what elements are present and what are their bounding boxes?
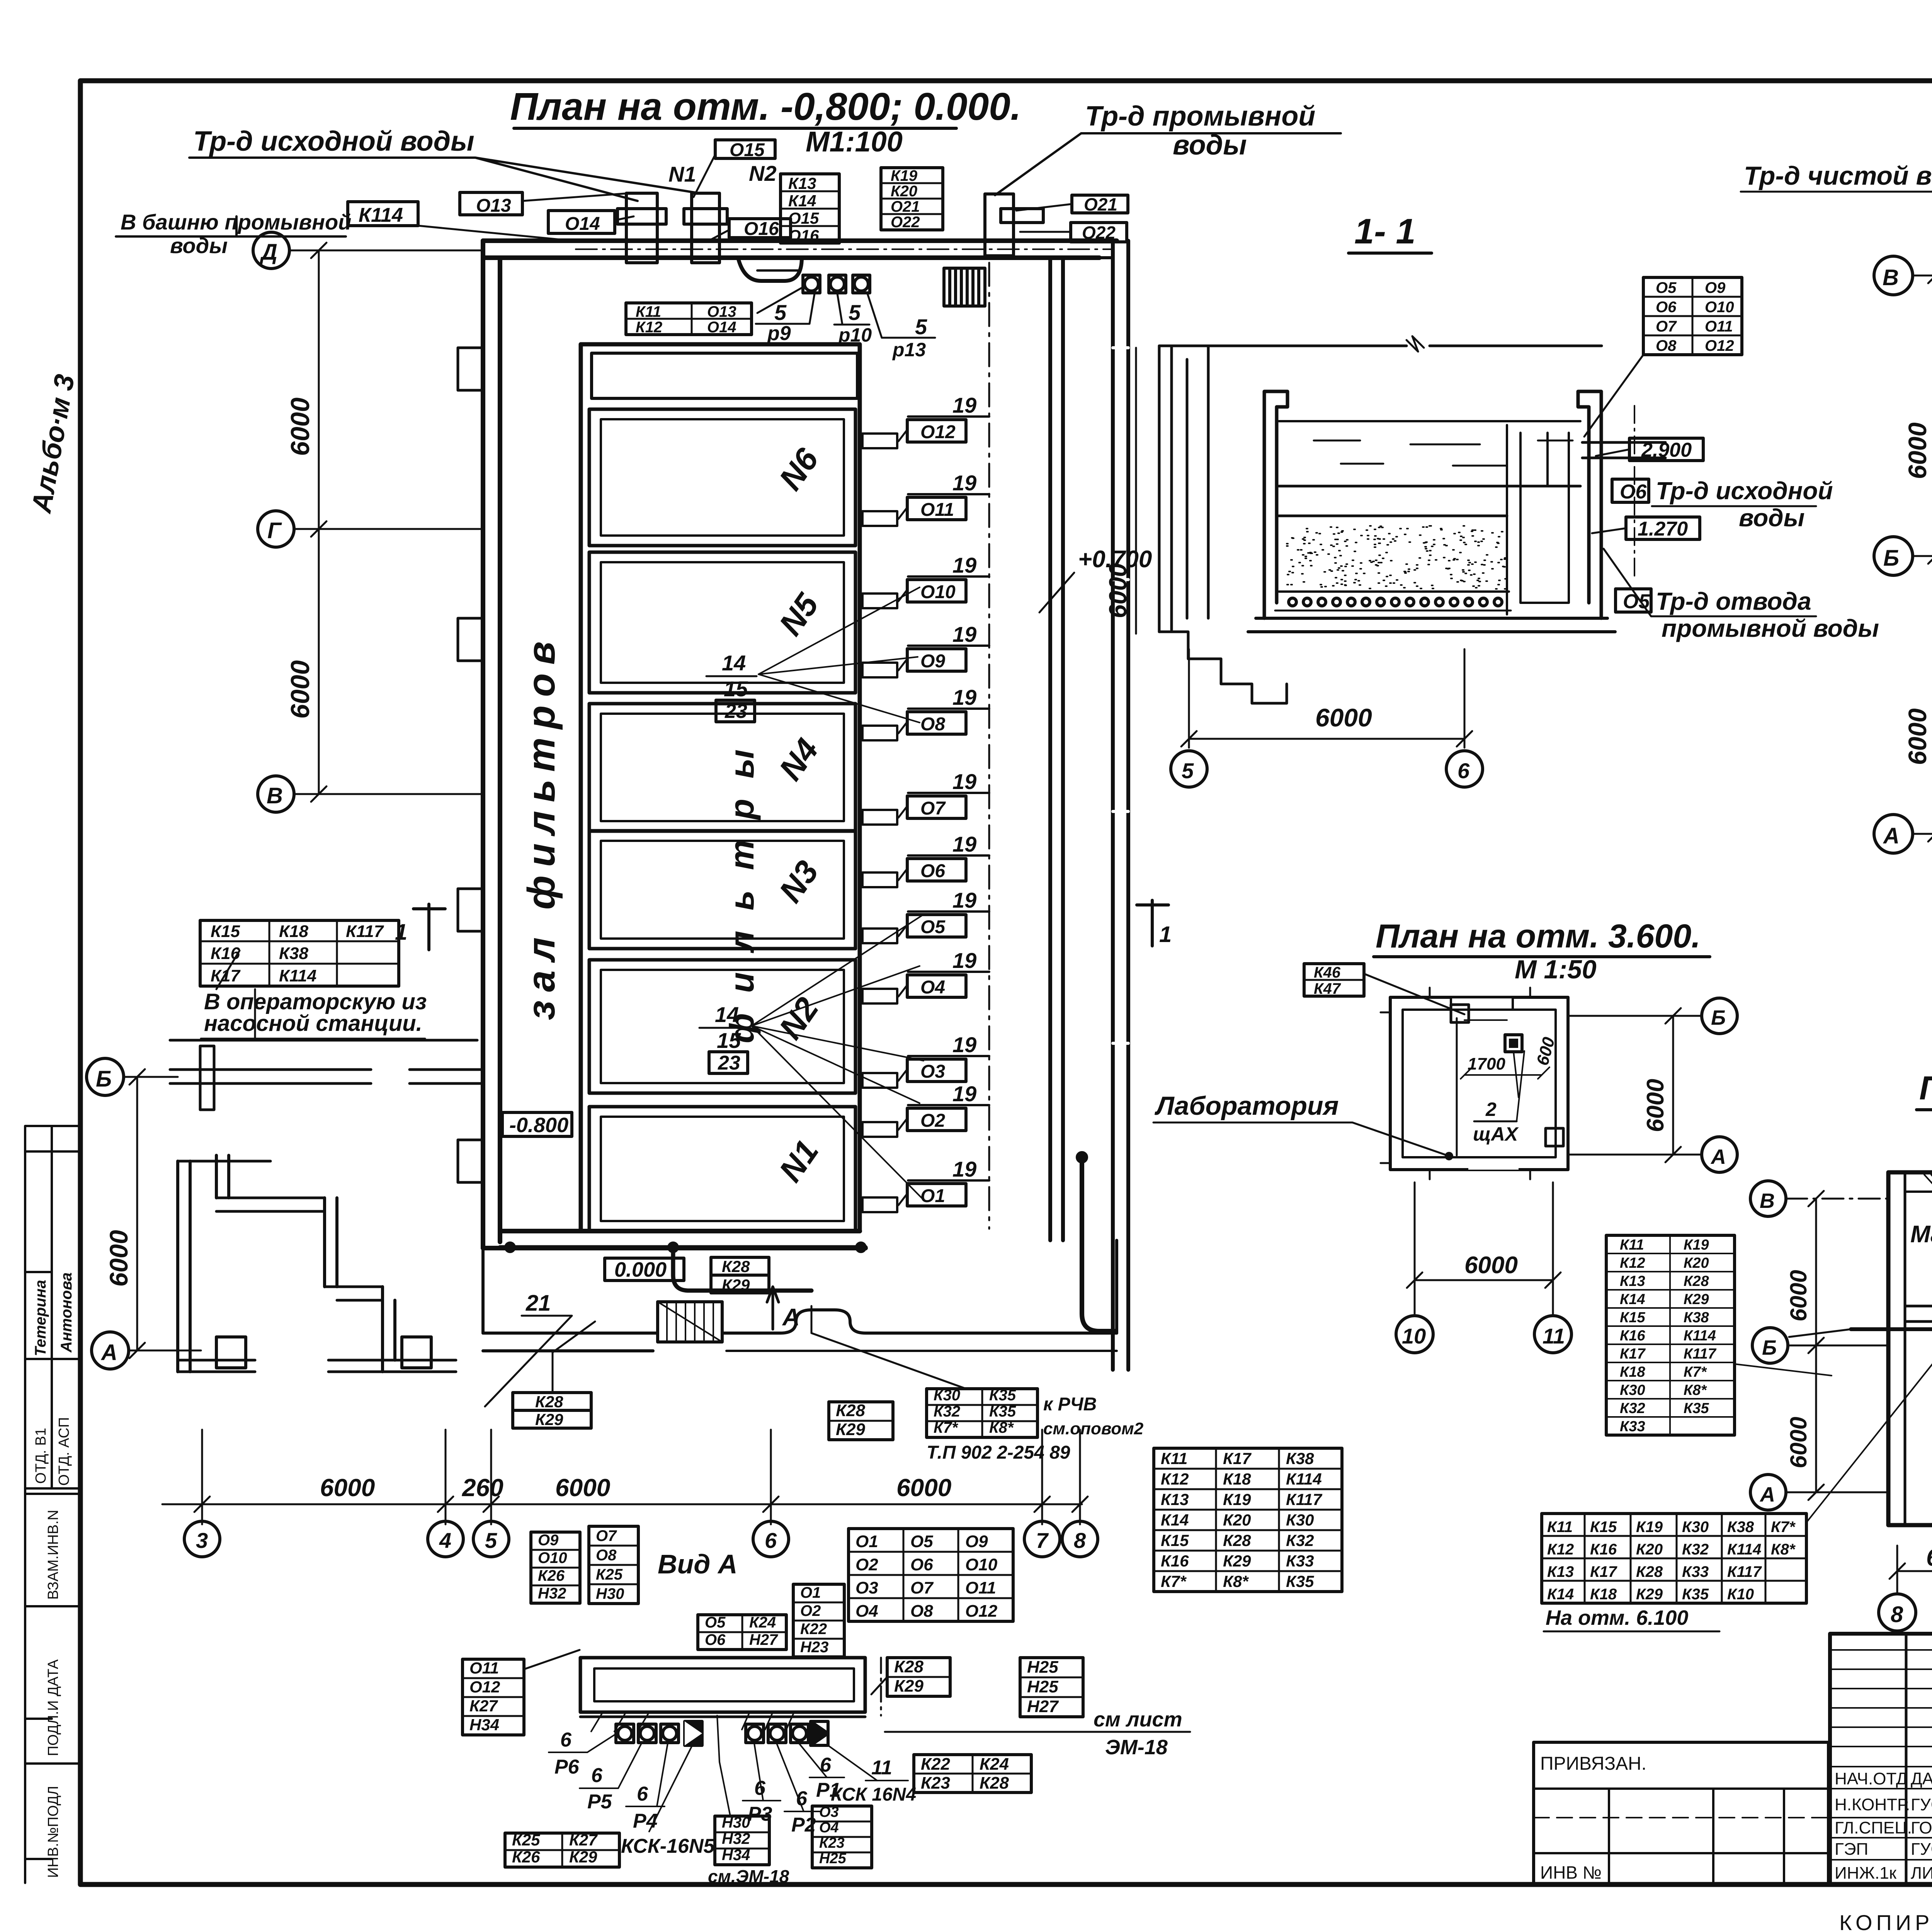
svg-text:К22: К22 — [921, 1755, 951, 1774]
plan 0.000 axis circle B — [1752, 1328, 1889, 1363]
svg-text:Н34: Н34 — [469, 1716, 499, 1734]
svg-text:К114: К114 — [1727, 1541, 1761, 1558]
svg-text:А: А — [1759, 1483, 1775, 1506]
svg-text:О6: О6 — [705, 1631, 726, 1648]
table K25 K27 / K26 K29 — [505, 1831, 619, 1867]
svg-text:К117: К117 — [1684, 1346, 1717, 1362]
gallery walls (right strip of filter hall) — [1050, 241, 1128, 1370]
svg-text:К15: К15 — [1590, 1519, 1617, 1536]
callout O11 with pipe stub — [862, 471, 989, 526]
svg-text:К13: К13 — [1547, 1563, 1574, 1580]
lab bottom dim and circles 10 11 — [1407, 1182, 1561, 1314]
svg-text:О5: О5 — [910, 1532, 933, 1551]
svg-text:ОТД. АСП: ОТД. АСП — [56, 1417, 72, 1486]
valve squares row top — [803, 275, 870, 293]
svg-text:6000: 6000 — [104, 1230, 133, 1287]
svg-text:1- 1: 1- 1 — [1354, 212, 1416, 251]
svg-text:К30: К30 — [934, 1387, 960, 1404]
svg-text:КОПИРОВАЛ ЛОГИНОВА: КОПИРОВАЛ ЛОГИНОВА — [1839, 1910, 1932, 1932]
dash-dot line along top wall — [576, 248, 1113, 250]
svg-text:260: 260 — [462, 1474, 503, 1502]
svg-text:К24: К24 — [980, 1755, 1009, 1774]
svg-text:19: 19 — [952, 685, 976, 709]
svg-text:6000: 6000 — [1642, 1079, 1669, 1132]
svg-text:К30: К30 — [1620, 1382, 1645, 1398]
svg-text:19: 19 — [952, 888, 976, 912]
svg-text:5: 5 — [915, 315, 927, 339]
view arrow A — [767, 1287, 800, 1331]
svg-text:К26: К26 — [538, 1567, 565, 1584]
svg-text:О5: О5 — [705, 1614, 726, 1631]
trough (view A) — [580, 1658, 881, 1731]
corridor stairs top — [944, 268, 985, 306]
table K15..K117 (operator) — [200, 920, 399, 986]
svg-text:1: 1 — [1159, 922, 1172, 947]
svg-text:Д: Д — [259, 240, 277, 265]
svg-text:воды: воды — [1739, 504, 1804, 532]
label 2.900 — [1596, 438, 1703, 461]
svg-text:11: 11 — [871, 1757, 892, 1779]
svg-text:6000: 6000 — [1786, 1417, 1811, 1468]
plan 0.000 axis circle V — [1750, 1181, 1889, 1216]
svg-text:Н32: Н32 — [538, 1585, 566, 1602]
svg-text:К17: К17 — [1223, 1449, 1252, 1468]
svg-text:Лаборатория: Лаборатория — [1154, 1091, 1339, 1121]
svg-text:Мастерская: Мастерская — [1910, 1221, 1932, 1248]
svg-text:О15: О15 — [730, 140, 765, 160]
grid circle 4 — [428, 1521, 463, 1557]
table O7 O8 K25 N30 — [589, 1526, 638, 1604]
svg-text:Н23: Н23 — [800, 1639, 828, 1656]
callout box O22 — [1020, 223, 1127, 243]
svg-text:О3: О3 — [819, 1804, 839, 1820]
svg-text:10: 10 — [1402, 1324, 1426, 1348]
svg-text:Б: Б — [1711, 1006, 1726, 1029]
svg-text:Т.П 902 2-254 89: Т.П 902 2-254 89 — [927, 1442, 1070, 1463]
svg-text:О9: О9 — [920, 651, 945, 672]
table K28/K29 bottom center — [829, 1401, 893, 1440]
svg-text:К7*: К7* — [1771, 1519, 1796, 1536]
section 1-1 title — [1349, 212, 1432, 253]
svg-text:К10: К10 — [1727, 1586, 1754, 1603]
svg-text:К114: К114 — [1684, 1328, 1716, 1344]
lab vertical dim 6000 — [1642, 1008, 1681, 1162]
title block left box (PRIVYAZAN) — [1534, 1742, 1828, 1884]
svg-text:О9: О9 — [1705, 279, 1726, 296]
callout box O21 — [1016, 194, 1128, 214]
svg-text:О7: О7 — [596, 1527, 617, 1544]
svg-text:О8: О8 — [1656, 337, 1677, 354]
svg-text:0.000: 0.000 — [614, 1258, 667, 1281]
callout O5 with pipe stub — [862, 888, 989, 943]
label O6 source water pipe — [1612, 477, 1833, 532]
bottom dimension line (grid 3-8) — [162, 1430, 1088, 1524]
svg-text:О6: О6 — [1620, 481, 1647, 503]
vertical dimension 6000 annex — [104, 1069, 145, 1358]
svg-text:3: 3 — [196, 1528, 208, 1553]
svg-text:4: 4 — [439, 1528, 451, 1553]
callout O9 with pipe stub — [862, 622, 989, 677]
dimension labels bottom left — [320, 1474, 951, 1502]
svg-text:К30: К30 — [1682, 1519, 1709, 1536]
svg-text:О8: О8 — [910, 1602, 933, 1621]
svg-text:О2: О2 — [920, 1111, 945, 1131]
svg-text:К29: К29 — [722, 1276, 750, 1294]
see sheet EM-18 — [885, 1708, 1190, 1759]
svg-text:К35: К35 — [989, 1403, 1016, 1420]
svg-text:ДАНИЛОВ: ДАНИЛОВ — [1911, 1769, 1932, 1788]
annex upper wall — [170, 989, 483, 1110]
left plan outer walls — [458, 241, 1117, 1248]
svg-text:5: 5 — [485, 1528, 497, 1553]
svg-text:11: 11 — [1543, 1324, 1565, 1348]
curved wall detail top (duct) — [738, 258, 802, 281]
svg-text:р9: р9 — [767, 322, 791, 345]
table O5 K24 / O6 N27 — [698, 1614, 786, 1650]
svg-text:К15: К15 — [1161, 1531, 1189, 1549]
svg-text:К33: К33 — [1286, 1552, 1314, 1570]
svg-text:К14: К14 — [788, 192, 816, 210]
filter cell N6 — [589, 409, 855, 546]
svg-text:ГУСЕВА: ГУСЕВА — [1911, 1840, 1932, 1859]
label 0.000 boxed — [605, 1258, 684, 1281]
svg-text:К28: К28 — [535, 1393, 563, 1411]
svg-text:N2: N2 — [749, 161, 777, 185]
svg-text:К28: К28 — [722, 1257, 750, 1276]
svg-text:О21: О21 — [1084, 194, 1117, 214]
svg-text:О4: О4 — [855, 1602, 878, 1621]
svg-text:Н30: Н30 — [722, 1814, 750, 1831]
filter cell N4 — [589, 704, 855, 831]
title: plan at 3.600 — [1374, 918, 1710, 984]
svg-text:К14: К14 — [1620, 1291, 1645, 1308]
laboratory plan — [1381, 988, 1568, 1179]
svg-text:К11: К11 — [636, 303, 661, 320]
table N30 N32 N34 — [708, 1716, 789, 1886]
pump plan axis circle A — [1874, 815, 1932, 853]
svg-text:К16: К16 — [1620, 1328, 1645, 1344]
svg-text:О1: О1 — [800, 1584, 821, 1601]
callout box O16 — [711, 219, 791, 240]
svg-text:насосной станции.: насосной станции. — [204, 1011, 422, 1036]
svg-text:К27: К27 — [469, 1697, 498, 1715]
svg-text:Н25: Н25 — [1027, 1677, 1058, 1696]
svg-text:К29: К29 — [1636, 1586, 1663, 1603]
axis circle D — [253, 232, 483, 269]
svg-text:К11: К11 — [1620, 1237, 1644, 1253]
svg-text:О15: О15 — [788, 209, 819, 227]
svg-text:6000: 6000 — [896, 1474, 951, 1502]
title: Plan at elev -0.800; 0.000 — [510, 85, 1021, 158]
label 21 — [485, 1291, 572, 1406]
svg-text:Н25: Н25 — [1027, 1658, 1058, 1677]
axis circle V (left plan) — [258, 776, 483, 812]
lab axis circle A — [1569, 1137, 1737, 1172]
label KSK-16N5 — [621, 1747, 715, 1857]
svg-text:КСК 16N4: КСК 16N4 — [831, 1784, 916, 1805]
svg-text:О14: О14 — [707, 319, 736, 336]
svg-text:М1:100: М1:100 — [806, 126, 903, 158]
label: pipe of source water — [189, 126, 699, 201]
svg-text:К28: К28 — [894, 1657, 924, 1676]
svg-text:К19: К19 — [1223, 1490, 1251, 1509]
svg-text:6000: 6000 — [1464, 1252, 1518, 1279]
svg-text:N1: N1 — [668, 162, 696, 186]
svg-text:К11: К11 — [1161, 1449, 1187, 1468]
pump plan axis circle B — [1874, 537, 1932, 575]
svg-text:6: 6 — [560, 1729, 572, 1751]
svg-text:6000: 6000 — [1903, 422, 1932, 479]
svg-text:О3: О3 — [855, 1578, 878, 1597]
table K28/K29 left lower — [513, 1321, 595, 1429]
section mark 1 (left) — [395, 904, 445, 950]
svg-text:6000: 6000 — [286, 398, 315, 456]
svg-text:О13: О13 — [707, 303, 736, 320]
svg-text:План на отм. 0.000.: План на отм. 0.000. — [1919, 1070, 1932, 1107]
filter cell N5 — [589, 552, 855, 693]
svg-text:К16: К16 — [1161, 1552, 1189, 1570]
svg-text:К27: К27 — [569, 1831, 598, 1849]
callout O4 with pipe stub — [862, 948, 989, 1003]
svg-text:О6: О6 — [920, 861, 945, 881]
svg-text:14: 14 — [715, 1002, 739, 1027]
workshop label — [1910, 1221, 1932, 1248]
svg-text:А: А — [1883, 823, 1900, 849]
svg-text:К8*: К8* — [1223, 1572, 1249, 1590]
svg-text:К32: К32 — [1682, 1541, 1709, 1558]
svg-text:О11: О11 — [469, 1659, 499, 1677]
svg-text:К114: К114 — [279, 966, 316, 985]
svg-text:6000: 6000 — [1315, 703, 1372, 732]
svg-text:А: А — [1710, 1145, 1726, 1168]
svg-text:К30: К30 — [1286, 1511, 1314, 1529]
svg-text:Тр-д исходной: Тр-д исходной — [1656, 477, 1833, 505]
svg-text:К38: К38 — [1286, 1449, 1314, 1468]
view A valves — [616, 1721, 828, 1745]
callout box O15 top — [694, 140, 775, 197]
svg-text:К29: К29 — [894, 1677, 924, 1696]
svg-text:О10: О10 — [920, 582, 956, 602]
svg-text:О3: О3 — [920, 1061, 945, 1082]
svg-text:К14: К14 — [1547, 1586, 1574, 1603]
axis circle A (annex) — [92, 1332, 201, 1369]
table K19 K20 O21 O22 — [881, 167, 943, 231]
svg-text:6000: 6000 — [1104, 563, 1132, 618]
svg-text:О16: О16 — [744, 219, 779, 239]
section left wall — [1159, 336, 1602, 703]
svg-text:К28: К28 — [1684, 1273, 1709, 1289]
svg-text:15: 15 — [717, 1028, 741, 1053]
svg-text:Н.КОНТР.: Н.КОНТР. — [1835, 1795, 1910, 1814]
svg-text:Н32: Н32 — [722, 1830, 750, 1847]
svg-text:19: 19 — [952, 471, 976, 495]
svg-text:р10: р10 — [838, 324, 872, 346]
callout O12 with pipe stub — [862, 393, 989, 448]
label +0.700 — [1039, 546, 1152, 612]
callout 14/15/23 at N2 — [699, 916, 923, 1200]
svg-text:НАЧ.ОТД: НАЧ.ОТД — [1835, 1769, 1908, 1788]
svg-text:К28: К28 — [1636, 1563, 1663, 1580]
table O1..O12 — [849, 1529, 1013, 1621]
label 5/R10 — [834, 294, 872, 346]
lab grid circle 11 — [1534, 1316, 1571, 1353]
title block main box — [1830, 1634, 1932, 1885]
table K11..K35 7 rows — [1154, 1448, 1342, 1592]
svg-text:О12: О12 — [920, 422, 956, 442]
section grid circle 6 — [1446, 751, 1483, 787]
svg-text:6: 6 — [591, 1764, 603, 1787]
svg-text:О9: О9 — [965, 1532, 988, 1551]
svg-text:К8*: К8* — [1771, 1541, 1796, 1558]
svg-text:1700: 1700 — [1468, 1054, 1505, 1073]
axis circle G — [258, 511, 483, 547]
svg-text:ПОДЛ.И ДАТА: ПОДЛ.И ДАТА — [45, 1659, 61, 1756]
table K22 K24 / K23 K28 — [914, 1755, 1031, 1793]
svg-text:Тр-д чистой воды N1: Тр-д чистой воды N1 — [1744, 161, 1932, 190]
svg-text:К13: К13 — [1161, 1490, 1189, 1509]
svg-text:О10: О10 — [1705, 299, 1734, 316]
svg-text:К12: К12 — [636, 319, 662, 336]
callout box O13 — [460, 192, 630, 216]
svg-text:ГЛ.СПЕЦ.: ГЛ.СПЕЦ. — [1835, 1818, 1912, 1837]
riser N1 — [617, 162, 696, 263]
plan 0.000 building — [1888, 1172, 1932, 1525]
svg-text:19: 19 — [952, 1032, 976, 1057]
dash-dot pipe line in corridor — [988, 263, 990, 1229]
svg-text:На отм. 6.100: На отм. 6.100 — [1546, 1606, 1688, 1629]
svg-text:К12: К12 — [1620, 1255, 1645, 1271]
svg-text:О8: О8 — [920, 714, 945, 735]
svg-text:2.900: 2.900 — [1641, 439, 1692, 461]
svg-text:19: 19 — [952, 1157, 976, 1181]
section vertical dim 6000 — [1104, 348, 1136, 634]
svg-text:К32: К32 — [1286, 1531, 1314, 1549]
svg-text:О9: О9 — [538, 1532, 559, 1549]
callout box O14 left — [548, 211, 634, 234]
table O1 O2 K22 N23 — [793, 1584, 844, 1657]
svg-text:15: 15 — [724, 677, 748, 701]
svg-text:Тетерина: Тетерина — [32, 1280, 49, 1356]
svg-text:К8*: К8* — [1684, 1382, 1707, 1398]
svg-text:К19: К19 — [1636, 1519, 1663, 1536]
filter cell N2 — [589, 960, 855, 1093]
svg-text:ЭМ-18: ЭМ-18 — [1105, 1736, 1168, 1759]
svg-text:Б: Б — [1883, 546, 1899, 571]
svg-text:6000: 6000 — [1786, 1270, 1811, 1321]
svg-text:А: А — [782, 1304, 800, 1331]
plan 0.000 axis circle A — [1750, 1475, 1889, 1510]
svg-text:см.оповом2: см.оповом2 — [1043, 1419, 1144, 1438]
label O5 washwater drain pipe — [1604, 549, 1879, 642]
svg-text:О7: О7 — [1656, 318, 1677, 335]
svg-text:К18: К18 — [1590, 1586, 1617, 1603]
svg-text:ГЭП: ГЭП — [1835, 1840, 1868, 1859]
lab axis circle B — [1569, 998, 1737, 1034]
hall label — [520, 633, 761, 1043]
annex lower building walls — [178, 1155, 456, 1372]
svg-text:К29: К29 — [1684, 1291, 1709, 1308]
svg-text:КСК-16N5: КСК-16N5 — [621, 1835, 715, 1857]
svg-text:К12: К12 — [1547, 1541, 1574, 1558]
table K30 K35 / K32 K35 / K7* K8* — [811, 1306, 1144, 1463]
svg-text:5: 5 — [774, 300, 787, 325]
svg-text:План на отм. 3.600.: План на отм. 3.600. — [1376, 918, 1701, 955]
filter block outline — [581, 344, 860, 1231]
label: washing water pipe (top middle) — [995, 101, 1341, 195]
view A labels 6/Rn — [549, 1729, 916, 1836]
svg-text:К38: К38 — [279, 944, 309, 963]
svg-text:К12: К12 — [1161, 1470, 1189, 1488]
svg-text:К17: К17 — [1620, 1346, 1646, 1362]
svg-text:К35: К35 — [1286, 1572, 1314, 1590]
pump plan axis circle V — [1874, 256, 1932, 295]
svg-text:6: 6 — [765, 1528, 777, 1553]
section mark T1 (right) — [1137, 900, 1172, 947]
svg-text:О11: О11 — [920, 500, 954, 520]
svg-text:К29: К29 — [535, 1410, 563, 1429]
svg-text:р13: р13 — [892, 339, 926, 361]
svg-text:О1: О1 — [920, 1186, 945, 1206]
svg-text:К117: К117 — [1727, 1563, 1762, 1580]
axis circle B (annex) — [87, 1058, 178, 1095]
callout O2 with pipe stub — [862, 1082, 989, 1137]
callout O8 with pipe stub — [862, 685, 989, 740]
svg-text:ГУСЕВА: ГУСЕВА — [1911, 1795, 1932, 1814]
svg-text:Вид А: Вид А — [658, 1549, 738, 1579]
svg-text:М 1:50: М 1:50 — [1515, 955, 1597, 984]
svg-text:К20: К20 — [1684, 1255, 1709, 1271]
plan 0.000 grid circle 8 — [1879, 1594, 1916, 1631]
svg-text:К22: К22 — [800, 1621, 827, 1638]
filter cell N1 — [589, 1107, 855, 1231]
svg-text:К8*: К8* — [989, 1419, 1014, 1436]
label 5/R13 — [867, 294, 935, 361]
svg-text:О10: О10 — [965, 1555, 998, 1574]
view A label — [658, 1549, 738, 1579]
callout O10 with pipe stub — [862, 553, 989, 608]
label -0.800 — [502, 1112, 572, 1137]
svg-text:6000: 6000 — [320, 1474, 375, 1502]
svg-text:К26: К26 — [512, 1848, 540, 1866]
svg-text:О8: О8 — [596, 1547, 617, 1564]
section grid circle 5 — [1171, 751, 1207, 787]
svg-text:К32: К32 — [1620, 1400, 1645, 1417]
riser N2 — [684, 161, 777, 263]
svg-text:К20: К20 — [1636, 1541, 1663, 1558]
svg-text:19: 19 — [952, 393, 976, 417]
svg-text:О12: О12 — [469, 1678, 500, 1696]
svg-text:К17: К17 — [211, 966, 241, 985]
svg-text:6: 6 — [820, 1754, 832, 1776]
plan 0.000 bottom dims — [1889, 1530, 1932, 1592]
svg-text:Г: Г — [267, 518, 282, 543]
svg-text:К16: К16 — [1590, 1541, 1617, 1558]
svg-text:К20: К20 — [891, 183, 917, 200]
svg-text:О10: О10 — [538, 1549, 567, 1566]
svg-text:19: 19 — [952, 553, 976, 577]
svg-text:К28: К28 — [980, 1774, 1009, 1793]
svg-text:ф и л ь т р ы: ф и л ь т р ы — [723, 744, 761, 1043]
filter cell N3 — [589, 831, 855, 949]
svg-text:2: 2 — [1485, 1099, 1497, 1120]
svg-text:Н30: Н30 — [596, 1585, 624, 1602]
svg-text:О2: О2 — [800, 1602, 821, 1619]
svg-text:ИНЖ.1к: ИНЖ.1к — [1835, 1864, 1897, 1883]
svg-text:О6: О6 — [1656, 299, 1677, 316]
album label — [26, 372, 81, 516]
svg-text:6: 6 — [637, 1783, 648, 1805]
svg-text:О12: О12 — [965, 1602, 998, 1621]
